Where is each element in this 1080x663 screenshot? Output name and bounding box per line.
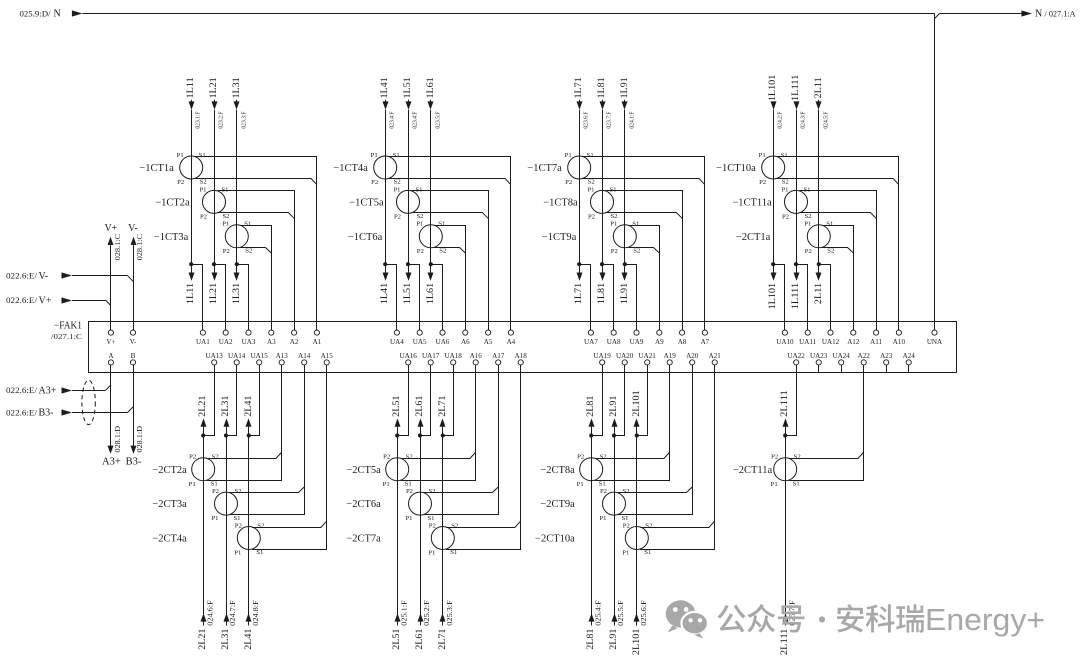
node 2L101 source arrow bottom [634, 613, 640, 621]
terminal UA14 [228, 352, 246, 365]
pin P1 of −1CT10a [759, 152, 766, 159]
svg-text:S1: S1 [415, 186, 422, 193]
svg-text:UA9: UA9 [630, 338, 644, 346]
svg-text:S1: S1 [781, 152, 788, 159]
terminal A13 [276, 352, 289, 365]
wire 1L31 stub to terminal row [236, 264, 238, 273]
label −1CT5a [349, 198, 384, 209]
svg-text:−1CT2a: −1CT2a [155, 198, 190, 209]
wire S2 of −1CT2a joins S1 drop [217, 213, 294, 219]
junction on 1L111 [794, 262, 798, 266]
svg-text:023.2:F: 023.2:F [218, 111, 225, 129]
svg-text:024.1:F: 024.1:F [628, 111, 635, 129]
svg-text:S2: S2 [804, 213, 811, 220]
wire feeder to B3- column [72, 407, 133, 413]
svg-text:2L101: 2L101 [632, 628, 642, 655]
svg-text:1L81: 1L81 [597, 77, 607, 98]
terminal A12 [847, 330, 860, 346]
pin P1 of −2CT8a [577, 481, 584, 488]
terminal A17 [492, 352, 505, 365]
pin S1 of −1CT3a [244, 221, 251, 228]
svg-text:UA11: UA11 [799, 338, 817, 346]
svg-text:A6: A6 [461, 338, 470, 346]
pin P2 of −2CT2a [189, 454, 196, 461]
node 1L51 source arrow [406, 101, 412, 109]
junction on 1L81 [600, 262, 604, 266]
pin P1 of −2CT10a [622, 550, 629, 557]
svg-text:P2: P2 [565, 179, 572, 186]
wire 1L81 primary drop [602, 100, 604, 264]
node 1L81 source arrow [600, 101, 606, 109]
svg-text:2L51: 2L51 [392, 395, 402, 416]
pin S2 of −1CT11a [804, 213, 811, 220]
wire S1 of −1CT8a to terminal A8 [605, 191, 682, 331]
wire branch 1L61 to terminal UA6 [431, 265, 443, 331]
pin S2 of −1CT6a [439, 248, 446, 255]
svg-text:P2: P2 [235, 522, 242, 529]
svg-text:2L61: 2L61 [415, 395, 425, 416]
node source arrow 022.6:E / A3+ [6, 386, 72, 397]
svg-text:UA3: UA3 [242, 338, 256, 346]
pin P1 of −2CT9a [599, 515, 606, 522]
terminal A6 [461, 330, 470, 346]
svg-text:A20: A20 [686, 352, 699, 360]
svg-text:A4: A4 [507, 338, 516, 346]
svg-text:S2: S2 [439, 248, 446, 255]
svg-text:N: N [54, 9, 61, 20]
wire S1 of −2CT11a to terminal A22 [789, 365, 864, 481]
junction on 1L41 [383, 262, 387, 266]
svg-text:UNA: UNA [927, 338, 943, 346]
svg-text:−2CT10a: −2CT10a [535, 534, 575, 545]
wire S1 of −2CT9a to terminal A20 [617, 365, 692, 515]
pin P1 of −2CT7a [428, 550, 435, 557]
pin P1 of −1CT3a [222, 221, 229, 228]
svg-text:1L11: 1L11 [186, 283, 196, 304]
svg-text:S2: S2 [610, 213, 617, 220]
terminal A21 [709, 352, 722, 365]
svg-text:A3+: A3+ [39, 386, 57, 397]
node 2L41 source arrow bottom [246, 613, 252, 621]
junction on 2L111 [783, 433, 787, 437]
terminal UA11 [799, 330, 817, 346]
svg-text:P1: P1 [416, 221, 423, 228]
net label 1L71 inner [574, 283, 584, 304]
label −1CT2a [155, 198, 190, 209]
pin P2 of −1CT7a [565, 179, 572, 186]
svg-text:A: A [108, 352, 114, 360]
terminal UNA [927, 330, 943, 346]
current transformer −1CT5a [397, 190, 420, 213]
wire S2 of −1CT6a joins S1 drop [434, 248, 465, 254]
terminal A20 [686, 352, 699, 365]
wire 2L111 stub from terminal row [785, 427, 787, 436]
svg-text:S2: S2 [600, 454, 607, 461]
current transformer −1CT7a [568, 156, 591, 179]
node 1L91 down arrow at terminal block [622, 273, 628, 281]
svg-text:P1: P1 [622, 550, 629, 557]
svg-text:2L71: 2L71 [438, 395, 448, 416]
wire branch 2L81 to terminal UA19 [591, 365, 602, 436]
svg-text:S1: S1 [803, 186, 810, 193]
net ref 025.1:F [400, 600, 408, 626]
node 2L101 up arrow at terminal block [634, 418, 640, 426]
wire 1L81 stub to terminal row [602, 264, 604, 273]
label −2CT4a [152, 534, 187, 545]
svg-text:−1CT7a: −1CT7a [527, 163, 562, 174]
net label N / 027.1:A [1035, 9, 1076, 20]
pin P2 of −2CT11a [771, 454, 778, 461]
current transformer −2CT3a [215, 492, 238, 515]
node 2L61 up arrow at terminal block [418, 418, 424, 426]
current transformer −2CT1a [807, 225, 830, 248]
net label 2L11 inner [814, 283, 824, 304]
svg-text:025.2:F: 025.2:F [423, 600, 431, 626]
terminal UA16 [400, 352, 418, 365]
terminal V- [130, 330, 137, 346]
net label 1L101 inner [768, 283, 778, 310]
node 2L91 source arrow bottom [612, 613, 618, 621]
svg-text:1L111: 1L111 [791, 74, 801, 101]
pin S2 of −2CT11a [794, 454, 801, 461]
svg-text:P2: P2 [600, 488, 607, 495]
terminal A10 [893, 330, 906, 346]
svg-text:022.6:E/: 022.6:E/ [6, 272, 38, 281]
net ref 025.4:F [594, 600, 602, 626]
node 2L41 up arrow at terminal block [246, 418, 252, 426]
terminal A19 [664, 352, 677, 365]
svg-text:P2: P2 [759, 179, 766, 186]
net ref 024.8:F [252, 600, 260, 626]
svg-text:S1: S1 [621, 515, 628, 522]
net label 1L91 inner [620, 283, 630, 304]
junction on 1L11 [189, 262, 193, 266]
svg-text:S1: S1 [644, 549, 651, 556]
wire 1L101 stub to terminal row [773, 264, 775, 273]
pin P1 of −2CT3a [211, 515, 218, 522]
svg-text:2L41: 2L41 [244, 628, 254, 649]
label −2CT5a [346, 465, 381, 476]
wire branch 1L101 to terminal UA10 [773, 265, 784, 331]
node 2L81 source arrow bottom [589, 613, 595, 621]
node 1L21 source arrow [212, 101, 218, 109]
net label 1L61 inner [426, 283, 436, 304]
svg-text:−2CT11a: −2CT11a [733, 465, 773, 476]
wire S2 of −2CT6a joins S1 rise [423, 487, 498, 493]
net label 2L101 inner [632, 390, 642, 417]
net ref 025.5:F [617, 600, 625, 626]
node 2L11 down arrow at terminal block [816, 273, 822, 281]
svg-text:P2: P2 [417, 248, 424, 255]
pin P2 of −1CT11a [782, 214, 789, 221]
svg-text:P1: P1 [577, 481, 584, 488]
pin P1 of −1CT5a [393, 186, 400, 193]
node 2L31 up arrow at terminal block [224, 418, 230, 426]
pin S1 of −2CT7a [450, 549, 457, 556]
svg-text:2L111: 2L111 [780, 390, 790, 417]
pin S2 of −1CT5a [416, 213, 423, 220]
svg-text:−FAK1: −FAK1 [54, 321, 82, 332]
junction on 2L51 [395, 433, 399, 437]
pin P2 of −1CT6a [417, 248, 424, 255]
terminal UA17 [422, 352, 440, 365]
svg-text:028.1:D: 028.1:D [114, 426, 122, 453]
net ref 025.6:F [640, 600, 648, 626]
pin P2 of −1CT1a [177, 179, 184, 186]
pin S1 of −1CT4a [393, 152, 400, 159]
svg-text:S1: S1 [405, 480, 412, 487]
svg-text:UA24: UA24 [833, 352, 851, 360]
wire branch 2L41 to terminal UA15 [249, 365, 260, 436]
svg-text:028.1:C: 028.1:C [114, 234, 122, 261]
svg-text:UA17: UA17 [422, 352, 440, 360]
node source arrow 022.6:E / B3- [6, 408, 72, 419]
svg-text:028.1:C: 028.1:C [136, 234, 144, 261]
svg-text:UA22: UA22 [788, 352, 806, 360]
terminal A7 [701, 330, 710, 346]
junction on 2L41 [247, 433, 251, 437]
wire S2 of −1CT3a joins S1 drop [240, 248, 271, 254]
svg-text:A17: A17 [492, 352, 505, 360]
svg-text:S1: S1 [609, 186, 616, 193]
svg-text:S2: S2 [645, 522, 652, 529]
net ref 025.2:F [423, 600, 431, 626]
svg-text:1L91: 1L91 [620, 77, 630, 98]
node 1L51 down arrow at terminal block [406, 273, 412, 281]
svg-text:UA21: UA21 [639, 352, 657, 360]
net label 1L81 inner [597, 283, 607, 304]
wire 2L61 stub from terminal row [420, 427, 422, 436]
svg-text:V-: V- [130, 338, 137, 346]
pin S1 of −2CT2a [211, 480, 218, 487]
node 2L11 source arrow [816, 101, 822, 109]
node 1L111 source arrow [794, 101, 800, 109]
net label 1L91 top [620, 77, 630, 98]
wire branch 2L51 to terminal UA16 [397, 365, 408, 436]
svg-text:S1: S1 [244, 221, 251, 228]
svg-text:2L81: 2L81 [586, 628, 596, 649]
junction on 1L61 [429, 262, 433, 266]
pin P1 of −1CT7a [565, 152, 572, 159]
svg-text:2L41: 2L41 [244, 395, 254, 416]
pin P2 of −1CT10a [759, 179, 766, 186]
node 1L31 source arrow [234, 101, 240, 109]
node 1L71 source arrow [577, 101, 583, 109]
current transformer −2CT4a [237, 527, 260, 550]
svg-text:P2: P2 [189, 454, 196, 461]
svg-text:2L21: 2L21 [198, 395, 208, 416]
svg-text:A18: A18 [515, 352, 528, 360]
svg-text:A3+: A3+ [102, 457, 121, 468]
net ref 023.7:F [606, 111, 613, 129]
terminal A16 [470, 352, 483, 365]
wire 1L101 primary drop [773, 102, 775, 265]
terminal UA6 [436, 330, 450, 346]
wire S1 of −2CT7a to terminal A18 [446, 365, 520, 550]
node 2L31 source arrow bottom [224, 613, 230, 621]
svg-text:1L31: 1L31 [232, 283, 242, 304]
wire S2 of −2CT2a joins S1 rise [207, 452, 282, 458]
svg-text:A23: A23 [880, 352, 893, 360]
wire 1L41 primary drop [385, 100, 387, 264]
svg-text:A14: A14 [298, 352, 311, 360]
pin S1 of −2CT6a [427, 515, 434, 522]
net label 2L81 inner [586, 395, 596, 416]
svg-text:/ 027.1:A: / 027.1:A [1045, 10, 1076, 19]
junction on 2L71 [441, 433, 445, 437]
node 2L51 source arrow bottom [395, 613, 401, 621]
svg-text:A22: A22 [858, 352, 871, 360]
terminal UA12 [822, 330, 840, 346]
wire branch 1L11 to terminal UA1 [191, 265, 202, 331]
label −1CT10a [716, 163, 756, 174]
terminal UA1 [196, 330, 210, 346]
wire S2 of −2CT4a joins S1 rise [252, 521, 326, 527]
net ref 024.2:F [777, 111, 784, 129]
pin S2 of −1CT9a [633, 248, 640, 255]
svg-text:A16: A16 [470, 352, 483, 360]
net label 2L21 inner [198, 395, 208, 416]
node 1L21 down arrow at terminal block [212, 273, 218, 281]
wire 1L11 primary drop [191, 100, 193, 264]
svg-text:1L61: 1L61 [426, 77, 436, 98]
svg-text:−1CT5a: −1CT5a [349, 198, 384, 209]
current transformer −2CT7a [431, 527, 454, 550]
current transformer −2CT6a [409, 492, 432, 515]
svg-text:A5: A5 [484, 338, 493, 346]
svg-text:P1: P1 [587, 186, 594, 193]
label −1CT11a [732, 198, 772, 209]
wire 2L31 stub from terminal row [226, 427, 228, 436]
net label 1L11 top [186, 77, 196, 98]
svg-text:024.6:F: 024.6:F [206, 600, 214, 626]
terminal UA13 [206, 352, 224, 365]
net label 2L61 bottom [415, 628, 425, 649]
wire S1 of −2CT4a to terminal A15 [252, 365, 326, 550]
svg-text:1L61: 1L61 [426, 283, 436, 304]
svg-text:P1: P1 [189, 481, 196, 488]
pin S1 of −1CT9a [632, 221, 639, 228]
svg-text:S2: S2 [622, 488, 629, 495]
pin S2 of −2CT6a [428, 488, 435, 495]
net ref 028.1:C on V- [136, 234, 144, 261]
svg-text:022.6:E/: 022.6:E/ [6, 386, 38, 395]
wire 1L61 stub to terminal row [430, 264, 432, 273]
wire 2L21 primary drop [203, 436, 205, 626]
wire 2L101 primary drop [636, 436, 638, 626]
svg-text:−2CT2a: −2CT2a [152, 465, 187, 476]
svg-text:P2: P2 [623, 522, 630, 529]
terminal A18 [515, 352, 528, 365]
wire branch 2L91 to terminal UA20 [614, 365, 625, 436]
junction on 2L31 [224, 433, 228, 437]
node source arrow 022.6:E / V+ [6, 295, 72, 306]
wire 2L21 stub from terminal row [203, 427, 205, 436]
node 1L71 down arrow at terminal block [577, 273, 583, 281]
node 1L41 down arrow at terminal block [383, 273, 389, 281]
svg-text:024.7:F: 024.7:F [229, 600, 237, 626]
pin S2 of −2CT5a [406, 454, 413, 461]
node 2L21 up arrow at terminal block [201, 418, 207, 426]
svg-text:P1: P1 [234, 550, 241, 557]
svg-text:P2: P2 [371, 179, 378, 186]
svg-text:1L41: 1L41 [380, 283, 390, 304]
label /027.1:C [51, 333, 82, 341]
svg-text:UA10: UA10 [776, 338, 794, 346]
svg-text:S1: S1 [256, 549, 263, 556]
svg-text:−2CT4a: −2CT4a [152, 534, 187, 545]
label −2CT9a [540, 499, 575, 510]
wire S1 of −1CT2a to terminal A2 [217, 191, 294, 331]
svg-text:S1: S1 [211, 480, 218, 487]
svg-text:025.5:F: 025.5:F [617, 600, 625, 626]
junction on 2L61 [418, 433, 422, 437]
label V- wire head [128, 223, 138, 234]
svg-text:P1: P1 [222, 221, 229, 228]
wire branch 1L21 to terminal UA2 [214, 265, 226, 331]
pin S1 of −1CT2a [221, 186, 228, 193]
pin P1 of −1CT8a [587, 186, 594, 193]
svg-text:P2: P2 [611, 248, 618, 255]
wire V- drop to terminal [133, 245, 135, 330]
wire S2 of −2CT8a joins S1 rise [595, 452, 670, 458]
net label 1L71 top [574, 77, 584, 98]
net label 1L111 top [791, 74, 801, 101]
wire feeder to V- column [72, 276, 133, 282]
svg-text:1L71: 1L71 [574, 283, 584, 304]
net label 1L21 top [209, 77, 219, 98]
label B3- wire tail [126, 457, 142, 468]
svg-text:S1: S1 [587, 152, 594, 159]
terminal UA5 [413, 330, 427, 346]
wire branch 1L41 to terminal UA4 [385, 265, 396, 331]
wire S2 of −2CT7a joins S1 rise [446, 521, 520, 527]
wire 2L51 primary drop [397, 436, 399, 626]
svg-text:1L51: 1L51 [403, 77, 413, 98]
svg-text:025.1:F: 025.1:F [400, 600, 408, 626]
watermark WeChat logo and text [666, 600, 1045, 638]
pin P2 of −2CT8a [577, 454, 584, 461]
svg-text:2L61: 2L61 [415, 628, 425, 649]
pin P1 of −2CT4a [234, 550, 241, 557]
svg-text:−1CT10a: −1CT10a [716, 163, 756, 174]
wire S2 of −1CT1a joins S1 drop [195, 179, 317, 185]
net ref 023.4:F [389, 111, 396, 129]
label −2CT2a [152, 465, 187, 476]
svg-text:P2: P2 [212, 488, 219, 495]
svg-text:A9: A9 [655, 338, 664, 346]
svg-text:023.1:F: 023.1:F [195, 111, 202, 129]
net ref 023.4:F [412, 111, 419, 129]
pin P2 of −2CT3a [212, 488, 219, 495]
svg-text:P2: P2 [771, 454, 778, 461]
svg-text:−2CT8a: −2CT8a [540, 465, 575, 476]
label −1CT1a [139, 163, 174, 174]
svg-text:Energy+: Energy+ [925, 603, 1045, 637]
wire 1L111 stub to terminal row [796, 264, 798, 273]
net label 2L51 inner [392, 395, 402, 416]
pin P2 of −2CT4a [235, 522, 242, 529]
terminal B [130, 352, 135, 365]
svg-text:V-: V- [39, 271, 49, 282]
terminal A11 [870, 330, 882, 346]
net label 1L81 top [597, 77, 607, 98]
label -FAK1 [54, 321, 82, 332]
svg-text:A7: A7 [701, 338, 710, 346]
pin P1 of −1CT6a [416, 221, 423, 228]
label −1CT9a [542, 232, 577, 243]
net ref 023.2:F [218, 111, 225, 129]
